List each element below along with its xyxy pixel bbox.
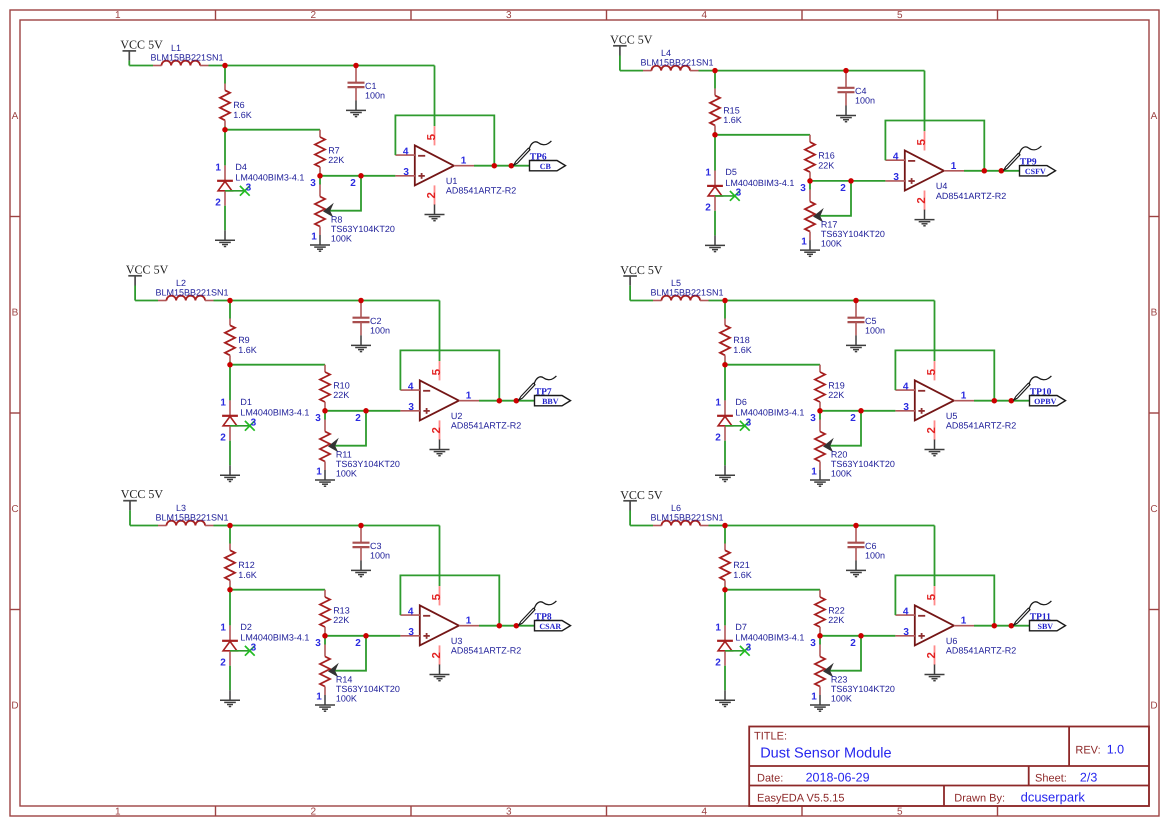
node junction output feedback (992, 623, 998, 629)
svg-text:1.0: 1.0 (1107, 743, 1124, 757)
wire rail corner down to opamp pin 5 (434, 66, 436, 127)
wire opamp output (479, 400, 535, 402)
wire node to opamp noninverting input (320, 175, 395, 177)
svg-text:VCC 5V: VCC 5V (620, 263, 663, 277)
node junction C1 top (353, 63, 359, 69)
svg-text:C3: C3 (370, 541, 382, 551)
power flag VCC 5V (net VCC) for block U6 (620, 488, 663, 511)
svg-text:3: 3 (506, 10, 512, 21)
wire wiper loop (335, 411, 366, 446)
resistor R13 22K (320, 590, 330, 633)
test point TP10 (1014, 376, 1052, 400)
capacitor C3 100n (353, 526, 370, 561)
svg-text:1: 1 (801, 237, 807, 248)
svg-text:D2: D2 (240, 622, 252, 632)
capacitor C6 100n (848, 526, 865, 561)
svg-text:2: 2 (850, 638, 856, 649)
potentiometer R23 TS63Y104KT20 100K (815, 636, 834, 695)
wire VCC stub (619, 56, 621, 71)
wire node to R22 (725, 589, 820, 591)
svg-text:2: 2 (705, 203, 711, 214)
svg-text:3: 3 (408, 627, 414, 638)
svg-text:100K: 100K (831, 694, 852, 704)
resistor R6 1.6K (220, 84, 230, 127)
svg-text:3: 3 (506, 807, 512, 818)
svg-text:LM4040BIM3-4.1: LM4040BIM3-4.1 (735, 633, 804, 643)
wire D7 to ground (724, 666, 726, 691)
svg-text:100K: 100K (336, 469, 357, 479)
svg-text:3: 3 (408, 402, 414, 413)
node junction at R18 top (722, 298, 728, 304)
svg-text:1: 1 (811, 467, 817, 478)
shunt reference D1 LM4040BIM3-4.1 (222, 400, 238, 440)
svg-text:LM4040BIM3-4.1: LM4040BIM3-4.1 (240, 408, 309, 418)
svg-text:2: 2 (431, 427, 443, 433)
svg-text:2: 2 (215, 198, 221, 209)
test point TP8 (519, 601, 557, 625)
svg-text:2: 2 (715, 433, 721, 444)
node junction C2 top (358, 298, 364, 304)
svg-text:TITLE:: TITLE: (754, 731, 787, 743)
ground for C5 (846, 335, 866, 351)
node junction R7/R8 wiper row (317, 173, 323, 179)
wire rail to opamp supply corner (214, 525, 440, 527)
wire down to R6 (224, 66, 226, 84)
wire resistor to node (229, 362, 231, 365)
power flag VCC 5V (net VCC) for block U4 (610, 33, 653, 56)
svg-text:AD8541ARTZ-R2: AD8541ARTZ-R2 (451, 421, 521, 431)
svg-text:2: 2 (350, 178, 356, 189)
op-amp U1 AD8541ARTZ-R2 (395, 126, 474, 205)
wire VCC stub (128, 61, 130, 66)
svg-text:1.6K: 1.6K (238, 345, 257, 355)
capacitor C2 100n (353, 301, 370, 336)
svg-text:3: 3 (736, 188, 742, 199)
ground for C1 (346, 100, 366, 116)
svg-text:R20: R20 (831, 449, 848, 459)
svg-text:L1: L1 (171, 43, 181, 53)
svg-text:D1: D1 (240, 397, 252, 407)
node junction C5 top (853, 298, 859, 304)
wire VCC rail left segment (135, 300, 158, 302)
svg-text:1.6K: 1.6K (233, 110, 252, 120)
wire feedback loop (400, 575, 499, 625)
svg-text:L6: L6 (671, 503, 681, 513)
wire VCC rail left segment (630, 525, 653, 527)
svg-text:1: 1 (311, 232, 317, 243)
node junction output feedback (497, 623, 503, 629)
wire VCC stub (134, 286, 136, 301)
node junction R19/R20 wiper row (817, 408, 823, 414)
node junction wiper connection (858, 633, 864, 639)
svg-text:4: 4 (702, 807, 708, 818)
op-amp U2 AD8541ARTZ-R2 (400, 361, 479, 440)
wire opamp output (474, 165, 530, 167)
wire D1 to ground (229, 441, 231, 466)
svg-text:2: 2 (715, 658, 721, 669)
resistor R9 1.6K (225, 319, 235, 362)
capacitor C5 100n (848, 301, 865, 336)
wire node to opamp noninverting input (820, 410, 895, 412)
svg-text:100n: 100n (370, 550, 390, 560)
svg-text:3: 3 (246, 183, 252, 194)
svg-text:100n: 100n (855, 96, 875, 106)
wire resistor to node (229, 587, 231, 590)
svg-text:TS63Y104KT20: TS63Y104KT20 (336, 459, 400, 469)
svg-text:A: A (1151, 111, 1158, 122)
test point TP6 (514, 141, 552, 165)
svg-text:TS63Y104KT20: TS63Y104KT20 (831, 459, 895, 469)
wire resistor to node (224, 127, 226, 130)
shunt reference D4 LM4040BIM3-4.1 (217, 165, 233, 205)
wire VCC rail left segment (620, 70, 643, 72)
wire D5 to ground (714, 211, 716, 236)
wire node to D1 (229, 365, 231, 401)
svg-text:VCC 5V: VCC 5V (610, 33, 653, 47)
svg-text:U5: U5 (946, 411, 958, 421)
ground for C4 (836, 106, 856, 122)
resistor R21 1.6K (720, 544, 730, 587)
node junction output testpoint (509, 163, 515, 169)
wire feedback loop (395, 115, 494, 165)
svg-text:TS63Y104KT20: TS63Y104KT20 (821, 229, 885, 239)
resistor R7 22K (315, 130, 325, 173)
power flag VCC 5V (net VCC) for block U2 (126, 262, 169, 285)
svg-text:1: 1 (715, 398, 721, 409)
node junction R18 bottom / D6 / R19 (722, 362, 728, 368)
shunt reference D2 LM4040BIM3-4.1 (222, 625, 238, 665)
wire rail corner down to opamp pin 5 (934, 301, 936, 362)
svg-text:3: 3 (903, 402, 909, 413)
svg-text:C6: C6 (865, 541, 877, 551)
svg-text:Drawn By:: Drawn By: (954, 792, 1005, 804)
svg-text:BLM15BB221SN1: BLM15BB221SN1 (651, 513, 724, 523)
wire feedback loop (895, 350, 994, 400)
wire node to R10 (230, 364, 325, 366)
ferrite bead L6 BLM15BB221SN1 (653, 521, 709, 526)
wire feedback loop (895, 575, 994, 625)
pin 3 no-connect of D6 (725, 421, 750, 431)
wire node to R16 (715, 134, 810, 136)
svg-text:TS63Y104KT20: TS63Y104KT20 (331, 224, 395, 234)
wire node to D2 (229, 590, 231, 626)
wire node to D5 (714, 135, 716, 171)
shunt reference D5 LM4040BIM3-4.1 (707, 171, 723, 211)
wire R7 to node (319, 173, 321, 176)
svg-text:2: 2 (926, 427, 938, 433)
wire resistor to node (714, 132, 716, 135)
node junction C3 top (358, 523, 364, 529)
potentiometer R11 TS63Y104KT20 100K (320, 411, 339, 470)
wire node to R7 (225, 129, 320, 131)
svg-text:R6: R6 (233, 100, 245, 110)
pin 3 no-connect of D2 (230, 646, 255, 656)
svg-text:100n: 100n (865, 325, 885, 335)
svg-text:4: 4 (408, 607, 414, 618)
ground for C3 (351, 560, 371, 576)
svg-text:EasyEDA V5.5.15: EasyEDA V5.5.15 (757, 792, 844, 804)
svg-text:100n: 100n (365, 90, 385, 100)
wire rail to opamp supply corner (209, 65, 435, 67)
svg-text:2: 2 (916, 197, 928, 203)
wire down to R9 (229, 301, 231, 319)
svg-text:3: 3 (251, 643, 257, 654)
svg-text:1: 1 (951, 161, 957, 172)
node junction output feedback (982, 168, 988, 174)
svg-text:22K: 22K (328, 155, 344, 165)
node junction output testpoint (999, 168, 1005, 174)
wire node to opamp noninverting input (820, 635, 895, 637)
svg-text:3: 3 (315, 413, 321, 424)
wire resistor to node (724, 362, 726, 365)
svg-text:4: 4 (903, 382, 909, 393)
svg-text:AD8541ARTZ-R2: AD8541ARTZ-R2 (451, 646, 521, 656)
resistor R10 22K (320, 365, 330, 408)
svg-text:R21: R21 (733, 560, 750, 570)
svg-text:D4: D4 (235, 162, 247, 172)
svg-text:5: 5 (926, 593, 938, 600)
test point TP7 (519, 376, 557, 400)
svg-text:D7: D7 (735, 622, 747, 632)
svg-text:C4: C4 (855, 86, 867, 96)
ground for C6 (846, 560, 866, 576)
net label CB (530, 161, 566, 171)
pin 3 no-connect of D5 (715, 191, 740, 201)
svg-text:AD8541ARTZ-R2: AD8541ARTZ-R2 (946, 421, 1016, 431)
wire wiper loop (830, 636, 861, 671)
wire down to R18 (724, 301, 726, 319)
ground for R20 (810, 470, 830, 486)
svg-text:4: 4 (903, 607, 909, 618)
svg-text:22K: 22K (818, 160, 834, 170)
wire opamp output (974, 625, 1030, 627)
node junction wiper connection (858, 408, 864, 414)
node junction R6 bottom / D4 / R7 (222, 127, 228, 133)
node junction R16/R17 wiper row (807, 178, 813, 184)
capacitor C1 100n (348, 66, 365, 101)
svg-text:3: 3 (800, 183, 806, 194)
wire feedback loop (400, 350, 499, 400)
wire node to opamp noninverting input (810, 180, 885, 182)
svg-text:3: 3 (251, 418, 257, 429)
ground for D4 (215, 230, 235, 246)
wire rail to opamp supply corner (709, 525, 935, 527)
svg-text:R15: R15 (723, 105, 740, 115)
svg-text:AD8541ARTZ-R2: AD8541ARTZ-R2 (446, 186, 516, 196)
svg-text:R7: R7 (328, 146, 340, 156)
net label OPBV (1030, 396, 1066, 406)
svg-text:R18: R18 (733, 335, 750, 345)
node junction at R9 top (227, 298, 233, 304)
svg-text:Date:: Date: (757, 773, 783, 785)
svg-text:2: 2 (355, 638, 361, 649)
wire wiper loop (820, 181, 851, 216)
svg-text:CSFV: CSFV (1025, 167, 1046, 176)
svg-text:5: 5 (426, 133, 438, 140)
svg-text:R9: R9 (238, 335, 250, 345)
pin 3 no-connect of D7 (725, 646, 750, 656)
svg-text:5: 5 (916, 139, 928, 146)
node junction at R21 top (722, 523, 728, 529)
wire rail corner down to opamp pin 5 (924, 71, 926, 132)
ferrite bead L4 BLM15BB221SN1 (643, 66, 699, 71)
wire VCC stub (629, 286, 631, 301)
node junction R9 bottom / D1 / R10 (227, 362, 233, 368)
ferrite bead L5 BLM15BB221SN1 (653, 296, 709, 301)
svg-text:dcuserpark: dcuserpark (1021, 789, 1086, 804)
svg-text:1.6K: 1.6K (733, 570, 752, 580)
svg-text:2: 2 (840, 183, 846, 194)
svg-text:C2: C2 (370, 316, 382, 326)
svg-text:1: 1 (466, 616, 472, 627)
svg-text:BLM15BB221SN1: BLM15BB221SN1 (151, 53, 224, 63)
svg-text:2: 2 (311, 807, 317, 818)
svg-text:D5: D5 (725, 167, 737, 177)
wire down to R15 (714, 71, 716, 89)
svg-text:3: 3 (810, 413, 816, 424)
ground for U5 (925, 440, 945, 456)
wire opamp output (479, 625, 535, 627)
svg-text:L4: L4 (661, 48, 671, 58)
wire down to R21 (724, 526, 726, 544)
test point TP11 (1014, 601, 1052, 625)
svg-text:2: 2 (426, 192, 438, 198)
ground for R11 (315, 470, 335, 486)
ground for D7 (715, 690, 735, 706)
op-amp U3 AD8541ARTZ-R2 (400, 586, 479, 665)
svg-text:C5: C5 (865, 316, 877, 326)
svg-text:3: 3 (903, 627, 909, 638)
wire down to R12 (229, 526, 231, 544)
svg-text:R17: R17 (821, 219, 838, 229)
svg-text:3: 3 (746, 418, 752, 429)
wire resistor to node (724, 587, 726, 590)
potentiometer R17 TS63Y104KT20 100K (805, 181, 824, 240)
resistor R18 1.6K (720, 319, 730, 362)
svg-text:3: 3 (315, 638, 321, 649)
svg-text:R11: R11 (336, 449, 352, 459)
svg-text:1: 1 (316, 692, 322, 703)
ground for U2 (430, 440, 450, 456)
wire wiper loop (830, 411, 861, 446)
svg-text:C: C (1150, 504, 1157, 515)
wire opamp output (964, 170, 1020, 172)
svg-text:3: 3 (810, 638, 816, 649)
svg-text:2: 2 (220, 658, 226, 669)
svg-text:1: 1 (115, 10, 121, 21)
svg-text:3: 3 (893, 172, 899, 183)
wire rail to opamp supply corner (699, 70, 925, 72)
svg-text:2018-06-29: 2018-06-29 (806, 771, 870, 785)
ferrite bead L1 BLM15BB221SN1 (153, 61, 209, 66)
wire rail corner down to opamp pin 5 (934, 526, 936, 587)
svg-text:U3: U3 (451, 636, 463, 646)
svg-text:5: 5 (431, 593, 443, 600)
pin 3 no-connect of D4 (225, 186, 250, 196)
ground for U3 (430, 665, 450, 681)
ground for R8 (310, 235, 330, 251)
svg-text:22K: 22K (828, 615, 844, 625)
resistor R16 22K (805, 135, 815, 178)
svg-text:AD8541ARTZ-R2: AD8541ARTZ-R2 (936, 191, 1006, 201)
svg-text:BLM15BB221SN1: BLM15BB221SN1 (641, 58, 714, 68)
wire R13 to node (324, 633, 326, 636)
svg-text:3: 3 (746, 643, 752, 654)
svg-text:2: 2 (850, 413, 856, 424)
node junction output testpoint (514, 623, 520, 629)
wire R10 to node (324, 408, 326, 411)
wire rail corner down to opamp pin 5 (439, 301, 441, 362)
node junction R21 bottom / D7 / R22 (722, 587, 728, 593)
svg-text:5: 5 (897, 10, 903, 21)
wire R16 to node (809, 178, 811, 181)
ground for R14 (315, 695, 335, 711)
svg-text:100K: 100K (331, 234, 352, 244)
wire VCC stub (129, 510, 131, 525)
svg-text:BBV: BBV (542, 397, 559, 406)
wire opamp output (974, 400, 1030, 402)
wire node to opamp noninverting input (325, 410, 400, 412)
svg-text:LM4040BIM3-4.1: LM4040BIM3-4.1 (235, 173, 304, 183)
svg-text:1: 1 (220, 398, 226, 409)
svg-text:100K: 100K (336, 694, 357, 704)
title block frame (749, 727, 1149, 807)
node junction wiper connection (358, 173, 364, 179)
svg-text:R23: R23 (831, 674, 848, 684)
svg-text:22K: 22K (333, 390, 349, 400)
wire rail to opamp supply corner (214, 300, 440, 302)
svg-text:2/3: 2/3 (1080, 771, 1097, 785)
wire node to D4 (224, 130, 226, 166)
power flag VCC 5V (net VCC) for block U5 (620, 263, 663, 286)
ground for D2 (220, 690, 240, 706)
svg-text:2: 2 (311, 10, 317, 21)
svg-text:OPBV: OPBV (1034, 397, 1056, 406)
svg-text:D: D (11, 701, 18, 712)
svg-text:1: 1 (215, 163, 221, 174)
net label CSFV (1020, 166, 1056, 176)
svg-text:L3: L3 (176, 503, 186, 513)
ground for U1 (425, 205, 445, 221)
svg-text:R12: R12 (238, 560, 255, 570)
svg-text:5: 5 (431, 368, 443, 375)
svg-text:1.6K: 1.6K (733, 345, 752, 355)
svg-text:B: B (1151, 308, 1158, 319)
test point TP9 (1004, 146, 1042, 170)
svg-text:C: C (11, 504, 18, 515)
svg-text:L2: L2 (176, 278, 186, 288)
svg-text:LM4040BIM3-4.1: LM4040BIM3-4.1 (725, 178, 794, 188)
ground for R17 (800, 240, 820, 256)
svg-text:3: 3 (403, 167, 409, 178)
wire node to D6 (724, 365, 726, 401)
ground for D1 (220, 465, 240, 481)
svg-text:4: 4 (408, 382, 414, 393)
wire VCC stub (629, 511, 631, 526)
svg-text:TS63Y104KT20: TS63Y104KT20 (336, 684, 400, 694)
wire D4 to ground (224, 206, 226, 231)
svg-text:A: A (12, 111, 19, 122)
svg-text:1: 1 (461, 156, 467, 167)
svg-text:R8: R8 (331, 214, 343, 224)
svg-text:AD8541ARTZ-R2: AD8541ARTZ-R2 (946, 646, 1016, 656)
svg-text:100K: 100K (831, 469, 852, 479)
node junction at R15 top (712, 68, 718, 74)
svg-text:R19: R19 (828, 381, 845, 391)
svg-text:REV:: REV: (1075, 745, 1100, 757)
op-amp U4 AD8541ARTZ-R2 (885, 131, 964, 210)
resistor R22 22K (815, 590, 825, 633)
